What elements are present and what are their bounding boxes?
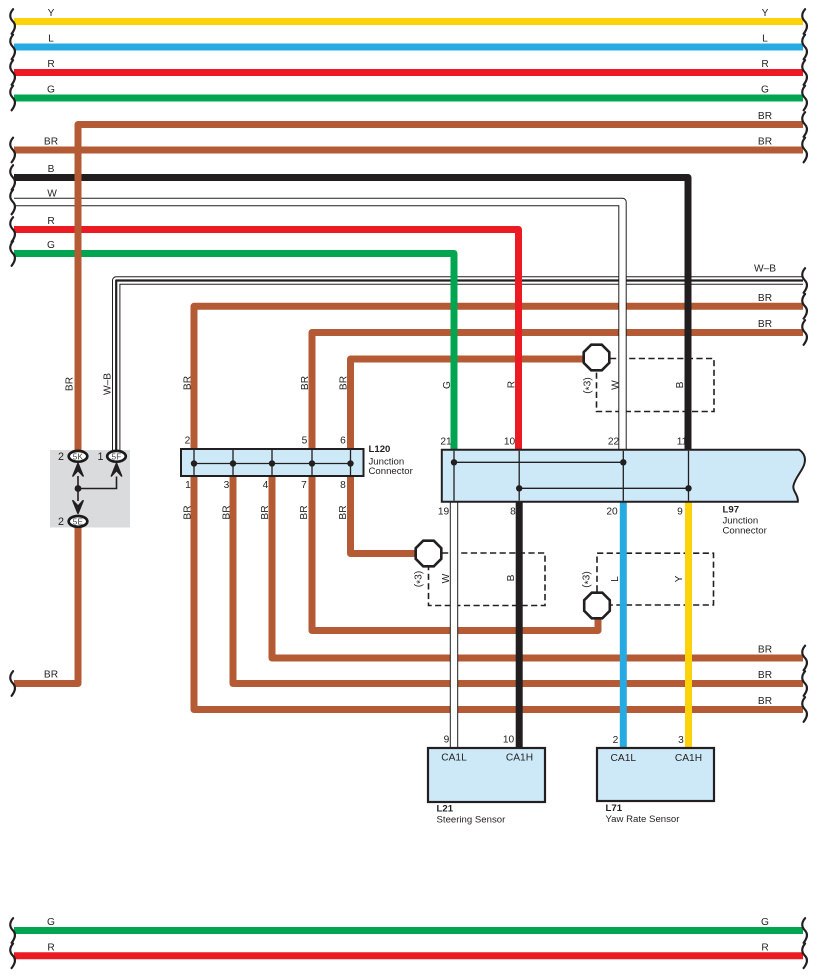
svg-text:Yaw Rate Sensor: Yaw Rate Sensor [606, 814, 681, 825]
junction connector L97 box with torn right edge [442, 450, 805, 502]
svg-text:7: 7 [301, 480, 307, 491]
wire label Y right [762, 8, 769, 19]
wire label R right [761, 59, 768, 70]
shield octagon C [584, 593, 610, 619]
svg-text:19: 19 [438, 507, 450, 518]
wire W (white) L97 pin 19 to L21 CA1L [450, 500, 458, 750]
wire G (green, from left edge to L97 pin 21) [14, 254, 454, 452]
svg-text:5E: 5E [73, 517, 84, 526]
vertical wire label BR (pin3 col) [222, 505, 233, 519]
svg-text:B: B [48, 164, 55, 175]
svg-text:Connector: Connector [723, 525, 768, 536]
svg-text:BR: BR [300, 376, 311, 390]
junction connector L120 box [181, 449, 364, 476]
svg-text:22: 22 [608, 437, 620, 448]
svg-text:R: R [507, 381, 518, 388]
L120 pin number 3 [224, 480, 230, 491]
wire BR main (corner at left, down to connector 5K) [78, 125, 803, 454]
svg-text:5F: 5F [112, 452, 122, 461]
shield octagon B [416, 541, 442, 567]
wire label G right [761, 85, 769, 96]
svg-text:Y: Y [48, 8, 55, 19]
vertical wire label BR (pin8 col) [338, 505, 349, 519]
wire label G left [47, 85, 55, 96]
L97 pin number 22 [608, 437, 620, 448]
svg-text:4: 4 [263, 480, 269, 491]
svg-text:W: W [47, 189, 57, 200]
wire break symbols right edge [802, 9, 807, 968]
wire Y (yellow, top bus) [14, 18, 803, 25]
wire label G2 left [47, 240, 55, 251]
svg-text:L: L [48, 34, 54, 45]
shield note (*3) box C [582, 571, 595, 587]
L71 terminal label CA1H [675, 753, 702, 764]
dashed shield box B (near L21) [429, 553, 546, 606]
svg-text:L21: L21 [437, 803, 454, 814]
wire BR from L120 pin 5 up and right to edge [312, 333, 803, 452]
terminal arrow into 5K [73, 463, 83, 476]
wire BR from L120 pin 2 up and right to edge [194, 306, 803, 451]
wire label B left [48, 164, 55, 175]
svg-text:6: 6 [340, 436, 346, 447]
bottom bus wire R [14, 952, 803, 959]
svg-text:R: R [47, 216, 54, 227]
svg-text:BR: BR [222, 505, 233, 519]
svg-text:G: G [47, 85, 55, 96]
svg-text:G: G [47, 917, 55, 928]
wire G (green bus) [14, 95, 803, 102]
svg-text:CA1H: CA1H [506, 753, 533, 764]
dashed shield box C (near L71) [597, 553, 714, 605]
svg-text:B: B [675, 381, 686, 388]
vertical wire label B (L97 pin11) [675, 381, 686, 388]
svg-text:BR: BR [758, 645, 772, 656]
L71 pin number 2 [613, 735, 619, 746]
svg-text:R: R [761, 59, 768, 70]
wire label R bottom right [761, 942, 768, 953]
wire label BR right 2 [758, 137, 772, 148]
vertical wire label W (to L21 pin9) [441, 573, 452, 583]
wire label R2 left [47, 216, 54, 227]
wire R (red, from left edge to L97 pin 10) [14, 230, 519, 452]
wire label W left [47, 189, 57, 200]
svg-text:BR: BR [758, 293, 772, 304]
wire label G bottom left [47, 917, 55, 928]
svg-text:BR: BR [338, 505, 349, 519]
svg-text:BR: BR [44, 137, 58, 148]
svg-text:3: 3 [224, 480, 230, 491]
wire L (blue) L97 pin 20 to L71 CA1L [620, 500, 627, 750]
svg-text:W–B: W–B [103, 373, 114, 395]
wire label Y left [48, 8, 55, 19]
vertical wire label Y (to L71 pin3) [674, 575, 685, 582]
svg-text:1: 1 [185, 480, 191, 491]
L97 pin number 10 [504, 437, 516, 448]
L120 pin number 5 [302, 436, 308, 447]
svg-text:10: 10 [503, 735, 515, 746]
wire L (blue bus) [14, 44, 803, 51]
svg-text:(*3): (*3) [582, 571, 595, 587]
L71 terminal label CA1L [611, 753, 637, 764]
L120 pin number 2 [185, 436, 191, 447]
svg-text:L97: L97 [723, 504, 740, 515]
wire Y (yellow) L97 pin 9 to L71 CA1H [685, 500, 692, 750]
svg-text:BR: BR [260, 505, 271, 519]
wire W-B (from 5F up and right to edge) [116, 281, 803, 453]
gray connector block (5K/5F/5E) [50, 450, 130, 528]
vertical wire label BR (x=78) [65, 377, 76, 391]
svg-text:W: W [611, 380, 622, 390]
wire label BR right 6 [758, 670, 772, 681]
svg-text:BR: BR [65, 377, 76, 391]
dashed shield box A (near L97) [597, 359, 715, 412]
connector links inside gray block [75, 476, 117, 501]
svg-text:G: G [442, 381, 453, 389]
svg-text:11: 11 [677, 437, 688, 448]
terminal arrow into 5F [111, 463, 121, 476]
L97 name label [723, 504, 768, 536]
L97 internal junction dots [451, 459, 692, 491]
wire label BR left [44, 137, 58, 148]
svg-text:G: G [761, 85, 769, 96]
svg-text:2: 2 [58, 516, 64, 528]
svg-text:Y: Y [674, 575, 685, 582]
bottom bus wire G [14, 927, 803, 934]
svg-text:9: 9 [677, 507, 683, 518]
vertical wire label BR (pin5 col) [300, 376, 311, 390]
svg-text:Connector: Connector [369, 466, 414, 477]
svg-text:8: 8 [340, 480, 346, 491]
L120 pin number 7 [301, 480, 307, 491]
wire label BR right 1 [758, 111, 772, 122]
svg-text:BR: BR [339, 376, 350, 390]
svg-text:1: 1 [97, 451, 103, 463]
svg-text:Y: Y [762, 8, 769, 19]
svg-text:(*3): (*3) [583, 377, 596, 393]
svg-text:BR: BR [299, 505, 310, 519]
L120 pin number 1 [185, 480, 191, 491]
L21 terminal label CA1H [506, 753, 533, 764]
connector terminal 5F [107, 451, 126, 462]
svg-text:20: 20 [606, 507, 618, 518]
svg-text:CA1L: CA1L [441, 753, 467, 764]
connector terminal 5K [69, 451, 88, 462]
svg-text:BR: BR [758, 670, 772, 681]
vertical wire label BR (pin1 col) [183, 505, 194, 519]
L21 terminal label CA1L [441, 753, 467, 764]
wire W (white, from left edge to L97 pin 22) [14, 202, 623, 451]
wire R (red bus) [14, 69, 803, 76]
pin number 1 (5F) [97, 451, 103, 463]
vertical wire label L (to L71 pin2) [610, 576, 621, 582]
svg-text:BR: BR [183, 505, 194, 519]
connector terminal 5E [69, 516, 88, 527]
svg-text:CA1H: CA1H [675, 753, 702, 764]
wire BR second horizontal [14, 147, 803, 154]
svg-text:2: 2 [58, 451, 64, 463]
L97 pin number 19 [438, 507, 450, 518]
svg-text:2: 2 [613, 735, 619, 746]
vertical wire label BR (pin6 col) [339, 376, 350, 390]
wire BR from L120 pin 4 down and right to edge [272, 474, 803, 658]
svg-text:2: 2 [185, 436, 191, 447]
svg-text:R: R [761, 942, 768, 953]
terminal arrow into 5E [73, 501, 83, 514]
wire label W-B right [754, 264, 776, 275]
vertical wire label BR (pin7 col) [299, 505, 310, 519]
L21 pin number 9 [444, 735, 450, 746]
pin number 2 (5K) [58, 451, 64, 463]
svg-text:3: 3 [678, 735, 684, 746]
wire BR from L120 pin 7 down, right, up to shield octagon C [312, 474, 598, 631]
svg-text:G: G [761, 917, 769, 928]
svg-text:L: L [610, 576, 621, 582]
L120 internal junction dots [191, 460, 354, 466]
vertical wire label W-B (x=117) [103, 373, 114, 395]
wire BR from L120 pin 8 down and right to shield octagon B [351, 474, 417, 554]
svg-text:BR: BR [758, 137, 772, 148]
vertical wire label G (L97 pin21) [442, 381, 453, 389]
svg-text:R: R [47, 59, 54, 70]
shield note (*3) box A [583, 377, 596, 393]
wire BR from L120 pin 1 down and right to edge [194, 474, 803, 710]
svg-text:5K: 5K [73, 452, 84, 461]
vertical wire label B (to L21 pin10) [506, 574, 517, 581]
wire label R bottom left [47, 942, 54, 953]
svg-text:B: B [506, 574, 517, 581]
svg-text:BR: BR [183, 376, 194, 390]
svg-text:BR: BR [44, 670, 58, 681]
wire label BR right 5 [758, 645, 772, 656]
L97 pin number 21 [440, 437, 452, 448]
L97 pin number 9 [677, 507, 683, 518]
L21 pin number 10 [503, 735, 515, 746]
svg-text:BR: BR [758, 111, 772, 122]
vertical wire label BR (pin4 col) [260, 505, 271, 519]
shield octagon A [584, 345, 610, 371]
wire BR from 5E down and left to edge [14, 525, 78, 684]
wire B (black, from left edge to L97 pin 11) [14, 178, 688, 452]
svg-text:5: 5 [302, 436, 308, 447]
vertical wire label R (L97 pin10) [507, 381, 518, 388]
sensor box L71 [597, 748, 714, 801]
wire label L left [48, 34, 54, 45]
svg-text:BR: BR [758, 319, 772, 330]
svg-text:21: 21 [440, 437, 452, 448]
L97 pin number 8 [510, 507, 516, 518]
wire label R left [47, 59, 54, 70]
wire label BR bottom-left [44, 670, 58, 681]
L97 pin number 20 [606, 507, 618, 518]
L120 pin number 4 [263, 480, 269, 491]
wire BR from L120 pin 3 down and right to edge [233, 474, 803, 684]
wire label L right [762, 34, 768, 45]
wire label BR right 3 [758, 293, 772, 304]
wire label BR right 4 [758, 319, 772, 330]
wire label G bottom right [761, 917, 769, 928]
wire break symbols left edge [10, 9, 15, 968]
sensor box L21 [428, 748, 545, 802]
svg-text:W–B: W–B [754, 264, 776, 275]
svg-text:R: R [47, 942, 54, 953]
svg-text:CA1L: CA1L [611, 753, 637, 764]
svg-text:10: 10 [504, 437, 516, 448]
shield note (*3) box B [414, 571, 427, 587]
L21 name label [437, 803, 507, 825]
svg-text:L120: L120 [369, 444, 391, 455]
L71 pin number 3 [678, 735, 684, 746]
svg-text:G: G [47, 240, 55, 251]
L71 name label [606, 803, 681, 825]
vertical wire label W (L97 pin22) [611, 380, 622, 390]
wire B (black) L97 pin 8 to L21 CA1H [516, 500, 523, 750]
svg-text:L: L [762, 34, 768, 45]
vertical wire label BR (pin2 col) [183, 376, 194, 390]
svg-text:8: 8 [510, 507, 516, 518]
pin number 2 (5E) [58, 516, 64, 528]
L120 name label [369, 444, 414, 477]
svg-text:Steering Sensor: Steering Sensor [437, 814, 507, 825]
L120 pin number 8 [340, 480, 346, 491]
svg-text:L71: L71 [606, 803, 623, 814]
svg-text:(*3): (*3) [414, 571, 427, 587]
svg-text:9: 9 [444, 735, 450, 746]
L97 pin number 11 [677, 437, 688, 448]
svg-text:W: W [441, 573, 452, 583]
L120 pin number 6 [340, 436, 346, 447]
svg-text:BR: BR [758, 696, 772, 707]
wire label BR right 7 [758, 696, 772, 707]
wire BR from L120 pin 6 up and right to shield octagon A [351, 359, 585, 451]
